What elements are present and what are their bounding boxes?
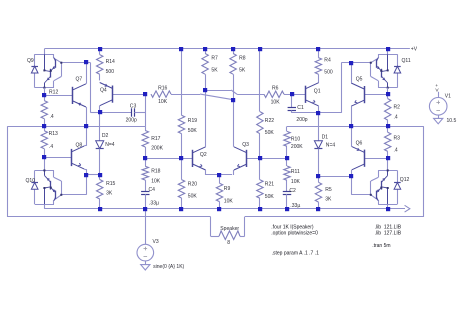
capacitor C1 [291,94,293,107]
svg-text:.lib 127.LIB: .lib 127.LIB [375,230,402,236]
port arrow at bus end [405,205,410,212]
svg-text:N=4: N=4 [105,142,115,148]
svg-text:R16: R16 [158,86,167,92]
ground V3 [141,265,150,270]
wire R6 to Q1 base [284,94,306,96]
junction R16 left node [143,92,147,96]
svg-text:10K: 10K [151,179,161,185]
svg-text:10.5: 10.5 [447,118,457,124]
resistor Speaker [219,231,240,240]
svg-text:R3: R3 [394,136,401,142]
svg-text:Q3: Q3 [242,142,249,148]
svg-text:R21: R21 [265,182,274,188]
wire Q6 emitter [351,126,353,146]
diode D2 [99,113,101,141]
svg-text:C1: C1 [297,105,304,111]
svg-text:Q2: Q2 [200,152,207,158]
resistor R20 [181,158,183,179]
svg-text:V1: V1 [445,93,451,99]
svg-text:10K: 10K [224,199,234,205]
wire V3 feed [145,209,147,245]
resistor R22 [257,112,263,134]
svg-text:5K: 5K [211,68,218,74]
ground V1 [434,118,443,123]
transistor Q8 [71,149,73,166]
transistor Q5 [364,86,366,103]
svg-text:R18: R18 [151,169,160,175]
wire Q8 base [44,157,71,159]
svg-text:R9: R9 [224,186,231,192]
junction dots right output node [349,124,353,128]
svg-text:Q10: Q10 [26,178,36,184]
wire V1 to ground [438,115,440,119]
svg-text:N=4: N=4 [326,142,336,148]
wire V3 to ground [145,261,147,265]
junction dots base rows [42,155,46,159]
wire Q8 collector [84,145,86,147]
svg-text:Q9: Q9 [27,58,34,64]
svg-text:R12: R12 [49,90,58,96]
svg-text:Speaker: Speaker [220,226,239,232]
svg-text:500: 500 [106,69,115,75]
junction Q1 base node [290,92,294,96]
svg-text:R2: R2 [394,104,401,110]
wire Q6 collector [351,170,353,176]
wire right output leg [423,126,425,216]
svg-text:.4: .4 [394,115,398,121]
svg-text:50K: 50K [265,130,275,136]
transistor Q6 [364,150,366,167]
svg-text:sine(0 {A} 1K): sine(0 {A} 1K) [153,264,184,270]
wire Q7 base [44,95,73,97]
svg-text:C4: C4 [149,187,156,193]
wire right output node [287,126,424,128]
junction Q11 base node [349,61,353,65]
svg-text:R5: R5 [325,187,332,193]
wire bottom bus [44,208,405,210]
junction dots bottom bus [98,207,102,211]
wire +V top rail [44,48,410,50]
resistor R10 [286,126,288,131]
svg-text:R4: R4 [324,58,331,64]
svg-text:D1: D1 [322,135,329,141]
svg-text:50K: 50K [265,194,275,200]
transistor Q1 [305,86,307,103]
svg-text:.33µ: .33µ [149,201,159,207]
svg-text:R20: R20 [188,181,197,187]
junction R12-R13 top node [42,93,46,97]
resistor R12 [44,95,46,100]
wire Q5 base [364,94,388,96]
svg-text:D2: D2 [102,133,109,139]
svg-text:.4: .4 [394,147,398,153]
svg-text:5K: 5K [239,68,246,74]
wire Q7 emitter to node A [86,107,88,126]
wire R7 node to R6 [205,90,231,92]
wire Q4 base to R16 [113,94,146,96]
wire Q10 base run [61,194,86,196]
svg-text:Q4: Q4 [100,88,107,94]
svg-text:3K: 3K [325,196,332,202]
svg-text:500: 500 [324,70,333,76]
svg-text:R6: R6 [272,86,279,92]
wire Q9 emitter to R12 [44,88,46,96]
resistor R21 [259,158,261,179]
wire Q6 base [365,158,388,160]
svg-text:200p: 200p [126,118,137,124]
svg-text:200K: 200K [291,144,303,150]
wire Q3 emitter [233,170,235,175]
resistor R8 [233,49,235,54]
voltage source V1 [429,98,447,116]
svg-text:R17: R17 [151,136,160,142]
svg-text:R10: R10 [291,137,300,143]
svg-text:R7: R7 [211,56,218,62]
resistor R17 [145,126,147,130]
wire V1 top [438,92,440,98]
svg-text:.4: .4 [50,114,54,120]
svg-text:50K: 50K [188,194,198,200]
wire Q1 emitter [318,106,320,113]
svg-text:50K: 50K [188,128,198,134]
wire node A left leg [7,126,9,217]
wire Q5 emitter [351,106,353,126]
wire D1 node to Q6 collector [319,176,352,178]
voltage source V3 [137,244,154,261]
capacitor C3 [100,112,132,114]
svg-text:.tran 5m: .tran 5m [372,243,390,249]
resistor R6 [264,91,284,97]
svg-text:200K: 200K [151,146,163,152]
svg-text:.33µ: .33µ [290,203,300,209]
svg-text:.option plotwinsize=0: .option plotwinsize=0 [271,230,318,236]
junction Q5 base node [386,92,390,96]
junction dots node A [42,124,46,128]
resistor R16 [151,91,171,97]
wire Q8 emitter [84,169,86,171]
junction R8 bottom [231,98,235,102]
resistor R15 [99,175,101,180]
wire lower return right [244,217,246,237]
svg-text:C2: C2 [289,188,296,194]
svg-text:200p: 200p [296,117,307,123]
svg-text:8: 8 [227,240,230,246]
svg-text:R14: R14 [106,59,115,65]
capacitor C2 [283,191,291,193]
wire Q9-base riser to Q4 collector [90,63,92,113]
resistor R5 [318,176,320,182]
svg-text:.step param A .1 .7 .1: .step param A .1 .7 .1 [272,250,319,256]
wire lower feedback left [8,216,211,218]
resistor R19 [178,115,184,133]
svg-text:R22: R22 [265,118,274,124]
wire base row left (R17 node to Q2) [145,158,193,160]
resistor R4 [318,49,320,58]
wire R16-net vertical [145,94,147,126]
wire base row right (Q3 to R10 node) [247,158,287,160]
wire diff pair emitters [205,174,232,176]
wire Q4 collector to node [99,106,101,113]
wire R19 feed [181,49,183,115]
wire R22 feed [259,49,261,112]
transistor Q12 [387,158,389,171]
wire Q3 collector [233,100,235,147]
junction Q4 collector node [98,110,102,114]
svg-text:Q1: Q1 [314,89,321,95]
svg-text:Q12: Q12 [400,177,410,183]
resistor R18 [145,158,147,166]
svg-text:R15: R15 [106,181,115,187]
transistor Q11 [387,49,389,54]
wire node B (Q8 emitter to R15) [86,174,99,176]
wire Q2 collector [205,90,207,147]
junction Q1 emitter node [316,111,320,115]
diode D1 [318,113,320,141]
svg-text:10K: 10K [158,99,168,105]
svg-text:.4: .4 [49,144,53,150]
transistor Q4 [112,86,114,103]
transistor Q7 [72,87,74,104]
svg-text:R13: R13 [49,131,58,137]
transistor Q3 [246,150,248,167]
junction Q9 base node [84,60,88,64]
resistor R9 [219,175,221,183]
svg-text:R8: R8 [239,56,246,62]
transistor Q2 [192,150,194,167]
svg-text:10K: 10K [291,179,301,185]
wire Q7 collector [86,63,88,84]
transistor Q10 [44,158,46,171]
capacitor C4 [141,191,149,193]
resistor R2 [387,94,389,98]
wire Q9 base to node [61,62,90,64]
wire C1 bottom / Q1 emitter / Q11 base run [292,112,342,114]
svg-text:R19: R19 [188,118,197,124]
wire Q12 base run [352,194,371,196]
svg-text:+V: +V [411,46,418,52]
svg-text:V3: V3 [153,239,159,245]
svg-text:Q11: Q11 [402,58,411,64]
junction dots node B and tails [84,173,88,177]
svg-text:10K: 10K [271,100,281,106]
wire Q2 emitter [205,170,207,175]
svg-text:R11: R11 [291,169,300,175]
wire Q5 collector [351,63,353,83]
svg-text:Q5: Q5 [356,77,363,83]
resistor R14 [99,49,101,55]
wire Q10 to bus [44,204,46,209]
svg-text:Q6: Q6 [356,141,363,147]
resistor R11 [286,158,288,166]
wire node A horizontal [8,126,146,128]
wire R16 right jog to R8 node [171,94,200,96]
resistor R7 [205,49,207,54]
transistor Q9 [44,49,46,54]
wire Q12 to bus [387,204,389,209]
svg-text:Q8: Q8 [76,142,83,148]
svg-text:C3: C3 [130,103,137,109]
svg-text:Q7: Q7 [76,77,83,83]
wire Q11 emitter to node [387,88,389,95]
resistor R3 [387,126,389,132]
junction R7 bottom [203,88,207,92]
resistor R13 [44,126,46,131]
svg-text:3K: 3K [106,191,113,197]
junction dots top rail [98,47,102,51]
